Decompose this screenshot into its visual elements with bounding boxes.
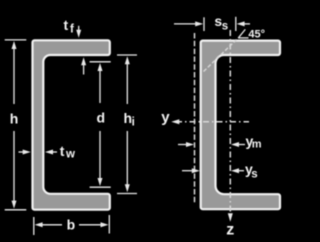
tick left of b bbox=[33, 217, 35, 235]
h dim line lower segment bbox=[13, 131, 15, 202]
tick left of s_s bbox=[203, 17, 205, 31]
tick bottom of h_i bbox=[117, 193, 137, 195]
channel section left (cross-section profile) bbox=[33, 40, 110, 209]
channel section right (axes view) bbox=[201, 41, 280, 210]
dimension h (left vertical) bbox=[5, 40, 27, 210]
dimension b (flange width, bottom) bbox=[34, 215, 110, 235]
y_m left arrow line bbox=[178, 144, 187, 146]
b line left segment bbox=[41, 224, 63, 226]
y_s left arrow line bbox=[182, 170, 193, 172]
angle symbol stroke base bbox=[238, 37, 248, 39]
y-axis dash-dot line (horizontal) bbox=[176, 121, 249, 123]
t_f upper arrow line bbox=[78, 26, 80, 31]
svg-text:d: d bbox=[97, 110, 106, 126]
dimension t_f (flange thickness, top) bbox=[76, 26, 86, 75]
s_s left arrow line bbox=[174, 23, 197, 25]
tick top of h_i bbox=[117, 54, 137, 56]
b line right segment bbox=[79, 224, 103, 226]
45 degree dashed diagonal bbox=[204, 38, 239, 72]
angle symbol stroke diagonal bbox=[239, 29, 246, 37]
h_i arrow down bbox=[125, 184, 130, 192]
svg-text:f: f bbox=[70, 24, 74, 36]
b arrow right bbox=[101, 222, 109, 227]
z-axis dash-dot line (vertical) bbox=[229, 30, 231, 220]
svg-text:w: w bbox=[65, 148, 75, 160]
t_f lower arrow line bbox=[83, 65, 85, 75]
dimension y_s (web face to z-axis) bbox=[182, 168, 244, 173]
svg-text:h: h bbox=[10, 110, 19, 126]
svg-text:s: s bbox=[222, 21, 228, 33]
s_s right arrowhead (left) bbox=[237, 21, 245, 26]
d arrow up bbox=[98, 63, 103, 71]
tick top of h bbox=[5, 39, 27, 41]
y-axis arrowhead (left) bbox=[171, 119, 179, 124]
d line upper segment bbox=[99, 69, 101, 103]
svg-text:t: t bbox=[64, 17, 69, 33]
h dim line upper segment bbox=[13, 47, 15, 104]
d arrow down bbox=[98, 178, 103, 186]
h_i line upper segment bbox=[126, 62, 128, 104]
y_s left arrowhead (right) bbox=[192, 168, 200, 173]
dimension t_w (web thickness) bbox=[19, 150, 58, 155]
svg-text:i: i bbox=[132, 117, 135, 129]
h_i arrow up bbox=[125, 56, 130, 64]
h_i line lower segment bbox=[126, 131, 128, 186]
d line lower segment bbox=[99, 131, 101, 180]
svg-text:s: s bbox=[251, 169, 257, 181]
svg-text:m: m bbox=[252, 139, 262, 151]
tick top of d bbox=[90, 61, 111, 63]
t_w right arrowhead (left) bbox=[45, 150, 53, 155]
svg-text:45°: 45° bbox=[248, 29, 265, 41]
y_s right arrow line bbox=[238, 170, 245, 172]
t_w left arrow line bbox=[19, 151, 25, 153]
dimension s_s (top) bbox=[174, 17, 250, 31]
y_m right arrowhead (left) bbox=[231, 142, 239, 147]
y_m right arrow line bbox=[238, 144, 246, 146]
z-axis arrowhead (down) bbox=[228, 213, 233, 222]
h arrow down bbox=[12, 201, 17, 209]
tick bottom of d bbox=[90, 186, 111, 188]
tick bottom of h bbox=[5, 209, 27, 211]
y_s right arrowhead (left) bbox=[231, 168, 239, 173]
t_f lower arrowhead (up) bbox=[81, 57, 86, 65]
svg-text:t: t bbox=[60, 143, 65, 159]
svg-text:z: z bbox=[226, 221, 234, 238]
tick right of b bbox=[108, 215, 110, 234]
s_s right arrow line bbox=[243, 23, 250, 25]
dimension d (inner straight web depth) bbox=[90, 62, 111, 187]
b arrow left bbox=[35, 222, 43, 227]
shear-centre dashed line (vertical, long dash) bbox=[194, 33, 196, 204]
s_s left arrowhead (right) bbox=[195, 21, 203, 26]
t_w right arrow line bbox=[51, 151, 57, 153]
tick right of s_s bbox=[235, 17, 237, 31]
t_f upper arrowhead (down) bbox=[76, 30, 81, 38]
dimension y_m (shear centre to z-axis) bbox=[178, 142, 245, 147]
t_w left arrowhead (right) bbox=[23, 150, 31, 155]
dimension h_i (inner height) bbox=[117, 55, 137, 194]
y_m left arrowhead (right) bbox=[186, 142, 194, 147]
svg-text:b: b bbox=[67, 216, 76, 232]
svg-text:y: y bbox=[161, 109, 170, 126]
h arrow up bbox=[12, 41, 17, 49]
